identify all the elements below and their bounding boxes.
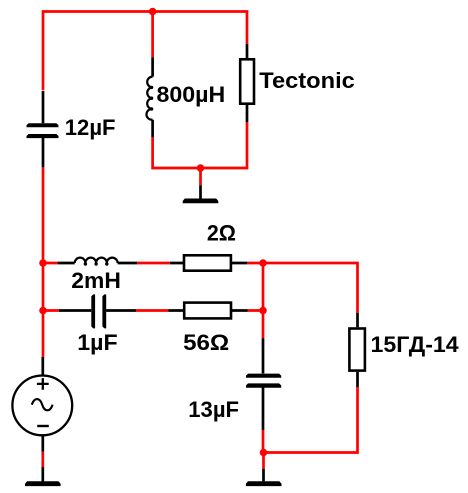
capacitor C 1uF (59, 294, 136, 328)
wire top rail (43, 12, 247, 91)
ground mid (183, 185, 219, 203)
svg-text:12µF: 12µF (65, 115, 116, 140)
resistor speaker 15GD-14 (349, 313, 365, 388)
source V1 AC (12, 357, 72, 452)
resistor R 56ohm (169, 303, 248, 319)
svg-text:56Ω: 56Ω (183, 330, 229, 355)
wire bottom rail (264, 387, 358, 452)
svg-text:800µH: 800µH (157, 82, 226, 107)
inductor L 800uH (146, 58, 153, 138)
wire inductor top stub (151, 12, 154, 58)
svg-text:15ГД-14: 15ГД-14 (371, 332, 460, 357)
wire branch2 segments (43, 309, 263, 312)
node junction left branch1 (39, 259, 47, 267)
node junction right branch2 (259, 307, 267, 315)
wire right top to speaker (263, 263, 358, 313)
node junction left branch2 (39, 307, 47, 315)
capacitor C 12uF (27, 91, 59, 167)
wire ground stub right (262, 453, 265, 469)
svg-text:1µF: 1µF (77, 330, 117, 355)
wire branch1 segments (43, 262, 263, 265)
svg-text:13µF: 13µF (188, 397, 239, 422)
node junction top (149, 8, 157, 16)
wire left rail (42, 167, 45, 357)
wire source bottom (41, 452, 44, 467)
resistor R 2ohm (170, 255, 247, 270)
ground right (246, 469, 282, 486)
svg-text:2mH: 2mH (71, 268, 121, 293)
wire cap13 bottom (262, 430, 265, 453)
resistor Tectonic (240, 44, 254, 122)
ground left (25, 467, 61, 486)
svg-text:Tectonic: Tectonic (259, 68, 355, 93)
capacitor C 13uF (246, 338, 281, 430)
wire mid rail (153, 122, 247, 168)
node junction bottom (260, 449, 268, 457)
wire mid-right vertical (262, 263, 265, 338)
node junction mid ground (197, 164, 205, 172)
svg-text:2Ω: 2Ω (207, 221, 236, 246)
inductor L 2mH (58, 258, 138, 266)
node junction right branch1 (259, 259, 267, 267)
wire ground stub mid (199, 168, 202, 185)
